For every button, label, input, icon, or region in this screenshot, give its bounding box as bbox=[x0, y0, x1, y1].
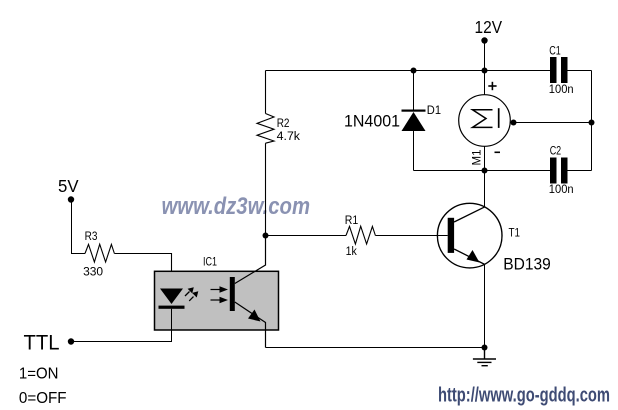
wire top rail right of C1 bbox=[568, 70, 592, 72]
wire motor right bbox=[510, 122, 591, 124]
svg-text:1N4001: 1N4001 bbox=[344, 111, 400, 130]
resistor R3 bbox=[85, 244, 172, 288]
transistor T1 emitter line bbox=[454, 249, 485, 265]
motor minus sign bbox=[495, 151, 501, 153]
junction motor right bbox=[511, 120, 517, 126]
transistor T1 emitter arrow bbox=[467, 250, 480, 263]
wire right rail bbox=[591, 71, 593, 171]
resistor R2 bbox=[257, 71, 274, 236]
opto light arrow 1 bbox=[185, 287, 194, 296]
resistor R1 bbox=[266, 226, 448, 244]
motor shaft bar bbox=[498, 108, 500, 128]
svg-text:100n: 100n bbox=[549, 184, 574, 196]
svg-text:1k: 1k bbox=[346, 246, 357, 258]
transistor T1 collector line bbox=[454, 207, 485, 222]
wire motor top stub bbox=[484, 71, 486, 95]
svg-text:www.dz3w.com: www.dz3w.com bbox=[162, 193, 311, 220]
opto LED bbox=[159, 289, 185, 309]
transistor T1 base bar bbox=[448, 218, 454, 253]
terminal 5V bbox=[68, 196, 74, 202]
ground symbol bbox=[473, 348, 496, 366]
junction top-12V bbox=[482, 68, 488, 74]
svg-text:1=ON: 1=ON bbox=[19, 366, 59, 383]
svg-text:330: 330 bbox=[83, 266, 103, 278]
wire bottom rail right of C2 bbox=[568, 170, 592, 172]
junction R2-R1 bbox=[263, 233, 269, 239]
motor M1 circle bbox=[459, 95, 511, 147]
opto photo arrow 2 bbox=[211, 297, 229, 303]
wire emitter column bbox=[484, 265, 486, 348]
svg-text:R3: R3 bbox=[85, 231, 98, 243]
svg-text:BD139: BD139 bbox=[503, 255, 551, 274]
diode D1 bbox=[402, 71, 426, 171]
svg-text:12V: 12V bbox=[475, 17, 503, 37]
svg-text:4.7k: 4.7k bbox=[277, 131, 301, 143]
motor M glyph bbox=[473, 110, 493, 128]
opto emitter arrow bbox=[248, 310, 261, 322]
svg-text:IC1: IC1 bbox=[203, 257, 217, 269]
opto base bar bbox=[230, 277, 235, 311]
capacitor C2 bbox=[550, 158, 568, 184]
transistor T1 circle bbox=[437, 203, 502, 268]
junction ground bbox=[482, 345, 488, 351]
svg-text:M1: M1 bbox=[472, 150, 484, 166]
svg-text:R2: R2 bbox=[277, 118, 290, 130]
wire 12V stub bbox=[484, 41, 486, 71]
svg-text:http://www.go-gddq.com: http://www.go-gddq.com bbox=[438, 384, 610, 406]
svg-text:0=OFF: 0=OFF bbox=[19, 390, 67, 407]
wire motor bottom stub bbox=[484, 146, 486, 170]
optocoupler IC1 box bbox=[155, 271, 279, 330]
capacitor C1 bbox=[550, 57, 568, 83]
svg-text:T1: T1 bbox=[509, 227, 521, 239]
svg-text:5V: 5V bbox=[58, 176, 79, 196]
wire top rail left bbox=[266, 70, 551, 72]
opto photo arrow 1 bbox=[211, 286, 229, 292]
wire ground rail bbox=[266, 347, 485, 349]
svg-text:C1: C1 bbox=[549, 46, 561, 58]
terminal 12V bbox=[481, 37, 487, 43]
svg-text:100n: 100n bbox=[549, 84, 574, 96]
wire bottom motor rail bbox=[414, 170, 551, 172]
opto light arrow 2 bbox=[189, 291, 198, 301]
junction motor bottom bbox=[482, 168, 488, 174]
svg-text:C2: C2 bbox=[550, 146, 562, 158]
junction top-D1 bbox=[411, 68, 417, 74]
wire 5V to R3 bbox=[72, 200, 86, 254]
opto emitter line bbox=[235, 302, 266, 348]
wire collector column bbox=[484, 171, 486, 208]
svg-text:TTL: TTL bbox=[24, 330, 60, 354]
motor plus sign bbox=[488, 82, 496, 90]
opto collector line bbox=[235, 236, 266, 284]
svg-text:D1: D1 bbox=[427, 105, 441, 117]
junction right rail bbox=[589, 120, 595, 126]
terminal TTL bbox=[68, 338, 74, 344]
wire LED cathode down bbox=[74, 309, 172, 342]
svg-text:R1: R1 bbox=[345, 215, 359, 227]
